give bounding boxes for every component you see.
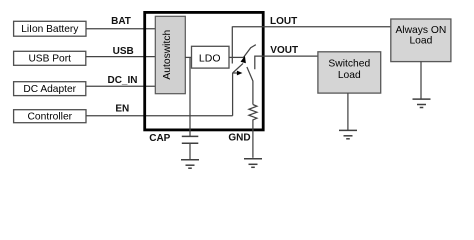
wire EN horizontal (86, 115, 233, 117)
box Always ON Load (391, 19, 451, 62)
box DC Adapter (14, 82, 86, 96)
wire GND stem (252, 122, 254, 158)
arrow EN control (horizontal) (233, 71, 243, 76)
wire BAT (86, 28, 157, 30)
svg-text:Always ON: Always ON (395, 25, 446, 36)
wire switched load ground stem (347, 93, 349, 130)
svg-text:Autoswitch: Autoswitch (162, 30, 173, 80)
box Switched Load (318, 52, 381, 93)
wire switch lower throw diagonal (247, 67, 253, 105)
ground below Switched Load (339, 130, 357, 138)
wire VOUT contact (255, 56, 318, 69)
box Controller (14, 110, 86, 123)
wire always-on load ground stem (420, 62, 422, 99)
svg-text:Controller: Controller (27, 112, 72, 123)
IC outline U1 (145, 12, 264, 129)
wire CAP vertical (189, 57, 191, 136)
svg-text:DC Adapter: DC Adapter (23, 84, 76, 95)
svg-text:LiIon Battery: LiIon Battery (21, 24, 79, 35)
wire DC_IN (86, 85, 157, 87)
svg-text:VOUT: VOUT (270, 45, 298, 56)
svg-text:CAP: CAP (149, 133, 170, 144)
wire USB (86, 56, 157, 58)
box USB Port (14, 51, 86, 65)
switch S1 blade (244, 45, 256, 58)
svg-text:BAT: BAT (111, 16, 131, 27)
svg-text:LOUT: LOUT (270, 16, 297, 27)
wire LOUT tap vertical (231, 26, 233, 63)
ground below Always ON Load (413, 99, 431, 107)
svg-text:USB: USB (113, 46, 134, 57)
block Autoswitch (155, 16, 185, 93)
svg-text:DC_IN: DC_IN (107, 75, 137, 86)
svg-text:Load: Load (338, 70, 361, 81)
block LDO (192, 46, 230, 68)
wire LOUT (232, 26, 390, 28)
capacitor C1 (182, 136, 199, 143)
arrow switch control from node (diagonal) (233, 56, 246, 73)
wire EN riser (232, 73, 234, 116)
svg-text:LDO: LDO (199, 53, 221, 65)
svg-text:Switched: Switched (328, 59, 370, 70)
ground below CAP (181, 160, 199, 168)
svg-text:GND: GND (228, 133, 250, 144)
box LiIon Battery (14, 21, 86, 36)
resistor R1 pulldown (249, 105, 257, 122)
wire cap to ground (189, 143, 191, 159)
svg-text:EN: EN (115, 103, 129, 114)
ground below GND (244, 159, 262, 168)
svg-text:Load: Load (409, 36, 432, 47)
wire autoswitch to LDO (185, 56, 192, 58)
wire LDO output (229, 56, 244, 58)
svg-text:USB Port: USB Port (28, 53, 71, 64)
